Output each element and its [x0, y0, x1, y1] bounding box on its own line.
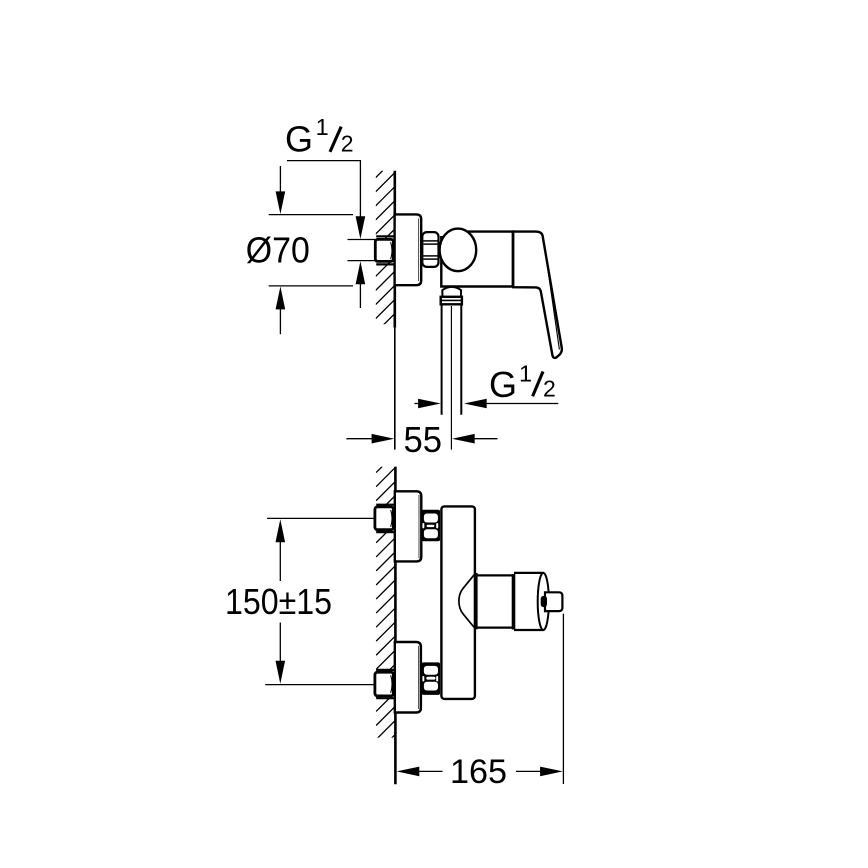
wall hole edges (lower union) [376, 669, 395, 671]
svg-text:55: 55 [404, 419, 443, 460]
outlet cylinder [477, 574, 513, 576]
upper fitting end arc [391, 510, 392, 527]
escutcheon (top figure) [395, 214, 422, 285]
valve body (top figure) [441, 232, 513, 287]
svg-text:1: 1 [316, 114, 329, 140]
wall hole edges (top inlet) [376, 235, 395, 237]
dim 165 arrow right [516, 770, 541, 772]
pipe centre line / extension [450, 306, 452, 450]
G1/2 top arrow down [356, 216, 366, 239]
G1/2 top leader line [287, 161, 360, 217]
lower square fitting [375, 672, 394, 696]
upper union nut [422, 510, 441, 541]
svg-text:150±15: 150±15 [225, 581, 332, 622]
mixer body (bottom figure) [441, 506, 475, 699]
Ø70 extension lines [269, 214, 353, 216]
dim 150±15 extension lines [267, 517, 375, 519]
svg-text:2: 2 [543, 376, 556, 402]
lower fitting end arc [391, 675, 392, 693]
outlet cone [459, 573, 476, 630]
svg-text:2: 2 [341, 131, 354, 157]
outlet nub [545, 592, 562, 611]
dim 55 arrow right (at wall) [346, 438, 372, 440]
svg-text:Ø70: Ø70 [246, 229, 310, 270]
G1/2 inlet square fitting [375, 239, 393, 261]
Ø70 arrow down [279, 166, 281, 193]
ball joint [440, 229, 477, 272]
svg-text:165: 165 [450, 753, 507, 791]
wall hole edges (upper union) [376, 504, 395, 506]
upper escutcheon [395, 491, 422, 561]
cap end ellipse [538, 573, 549, 630]
upper square fitting [375, 507, 394, 530]
union nut (top figure) [422, 232, 438, 267]
cone base line [476, 573, 478, 629]
lower escutcheon [395, 642, 421, 713]
body/handle joint [512, 232, 515, 287]
wall line (bottom figure) [394, 467, 397, 785]
dim 165 arrow left (at wall) [397, 767, 420, 777]
G1/2 top arrow up [356, 261, 366, 284]
dim 55 arrow left (at pipe centre) [452, 434, 475, 444]
escutcheon edge highlight [418, 219, 420, 282]
Ø70 arrow up [276, 286, 286, 309]
outlet cap [514, 572, 543, 574]
hose G1/2 arrow right [415, 403, 422, 405]
wall hatching (bottom figure) [376, 452, 397, 754]
svg-text:G: G [285, 119, 313, 160]
nub bore (dark) [541, 596, 547, 607]
hose collar [441, 297, 462, 305]
wall line (top figure) [393, 171, 396, 328]
wall hatching (top figure) [376, 157, 397, 347]
svg-text:G: G [489, 364, 517, 405]
svg-text:1: 1 [519, 360, 532, 386]
lever handle [513, 232, 562, 358]
hose G1/2 arrow left [464, 399, 487, 409]
dim 150 arrow down [279, 623, 281, 662]
G1/2 extension lines [348, 239, 376, 241]
shower hose pipe [441, 304, 443, 415]
dim 150 arrow up [276, 519, 286, 542]
outlet joint [512, 574, 516, 630]
lower union nut [422, 662, 441, 695]
hose elbow [442, 287, 461, 297]
lever highlight line [544, 244, 559, 350]
fitting end arc [391, 242, 392, 259]
nut facet lines [423, 241, 437, 259]
165 right extension line [562, 614, 564, 784]
